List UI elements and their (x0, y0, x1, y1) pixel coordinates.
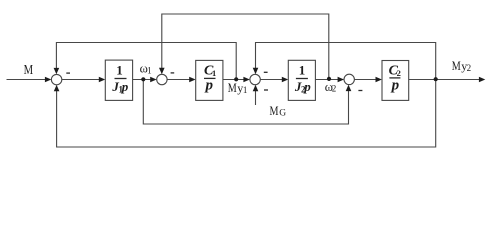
svg-text:M: M (228, 80, 237, 95)
block 1/(J1 p) (105, 60, 132, 100)
minus sign at S3 top input (264, 71, 268, 73)
svg-text:p: p (390, 78, 400, 94)
wire input M (7, 79, 46, 81)
arrowhead into S4 left (338, 77, 344, 83)
svg-text:1: 1 (116, 63, 123, 78)
svg-text:1: 1 (299, 63, 306, 78)
wire feedback My2 to S3 arc (256, 43, 436, 80)
arrowhead into S3 top (253, 68, 259, 74)
svg-text:p: p (303, 79, 311, 94)
arrowhead into S2 left (150, 77, 156, 83)
node omega1 junction dot (141, 77, 145, 81)
wire feedback omega2 to S2 top arc (162, 14, 329, 80)
arrowhead into S3 bottom (MG) (253, 85, 259, 91)
svg-text:2: 2 (332, 84, 337, 94)
minus sign at S1 top input (66, 72, 70, 74)
svg-text:1: 1 (147, 65, 152, 75)
svg-text:2: 2 (467, 63, 472, 73)
arrowhead into block3 (282, 77, 288, 83)
arrowhead into S3 left (243, 77, 249, 83)
arrowhead output end (479, 77, 485, 83)
summing junction S4 (344, 74, 354, 84)
arrowhead into S1 left (45, 77, 51, 83)
svg-text:1: 1 (243, 85, 248, 95)
svg-text:G: G (279, 108, 286, 118)
arrowhead into S4 bottom (346, 85, 352, 91)
summing junction S3 (250, 74, 260, 84)
wire block3 to S4 (315, 79, 338, 81)
minus sign at S4 bottom input (358, 90, 362, 92)
arrowhead into block1 (99, 77, 105, 83)
arrowhead into S2 top (159, 68, 165, 74)
block 1/(J2 p) (288, 60, 315, 100)
block C1/p (196, 60, 223, 100)
svg-text:M: M (270, 103, 279, 118)
wire input MG (255, 91, 257, 106)
wire S2 to block2 (167, 79, 190, 81)
arrowhead into S1 top (54, 68, 60, 74)
svg-text:M: M (24, 63, 34, 78)
node My2 junction dot (434, 77, 438, 81)
arrowhead into block2 (189, 77, 195, 83)
wire feedback My1 to S1 arc (56, 43, 236, 80)
wire S1 to block1 (62, 79, 100, 81)
node My1 junction dot (234, 77, 238, 81)
minus sign at S2 top input (171, 72, 175, 74)
minus sign at S3 bottom input (264, 89, 268, 91)
summing junction S1 (51, 74, 61, 84)
svg-text:p: p (121, 79, 129, 94)
wire tap omega1 to S4 bottom (143, 80, 348, 125)
wire block1 to S2 (133, 79, 152, 81)
svg-text:p: p (203, 78, 213, 94)
arrowhead into S1 bottom (54, 85, 60, 91)
svg-text:M: M (452, 58, 461, 73)
wire output My2 (409, 79, 480, 81)
summing junction S2 (157, 74, 167, 84)
block C2/p (382, 61, 409, 101)
node omega2 junction dot (327, 77, 331, 81)
wire feedback My2 to S1 bottom (57, 80, 436, 148)
wire block2 to S3 (223, 79, 244, 81)
arrowhead into block4 (376, 77, 382, 83)
wire S3 to block3 (260, 79, 283, 81)
wire S4 to block4 (354, 79, 376, 81)
